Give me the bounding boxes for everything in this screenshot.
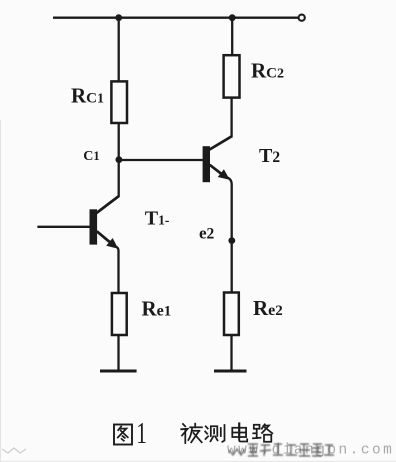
wire T1 base lead [37,226,89,228]
faint page edges [0,120,2,462]
wire Re2 to ground [230,335,232,372]
caption char 图 [114,425,132,445]
resistor Re2 [224,293,239,336]
T1 collector diagonal [97,196,119,213]
T2 emitter arrowhead [218,169,230,180]
svg-text:C1: C1 [83,149,99,164]
junction dot at top rail over RC1 [115,14,122,21]
wire Re1 to ground [117,335,119,372]
wire from top rail to RC1 [118,18,120,82]
T1 base bar [90,209,98,244]
wire top supply rail [53,17,298,19]
resistor Re1 [112,293,127,335]
svg-text:T2: T2 [259,145,280,167]
caption char 电 [232,424,247,442]
svg-text:1: 1 [136,416,147,450]
ground bar right [214,370,247,373]
caption char 路 [253,424,272,442]
caption char 被 [181,424,202,443]
T1 emitter diagonal [97,231,113,245]
wire RC2 to T2 collector [230,98,232,138]
bottom-left faint smudge [2,448,26,453]
caption: 图 1 被测电路 (drawn as vector strokes) [114,416,272,450]
node e2 junction dot [228,237,235,244]
resistor RC1 [111,81,127,123]
caption char 测 [205,425,224,442]
svg-text:e2: e2 [199,223,215,242]
terminal open circle (supply input) [299,15,305,21]
T2 emitter diagonal [210,165,225,177]
T2 collector diagonal [209,136,232,149]
transistor T1 [90,196,119,249]
wire from top rail to RC2 [231,18,233,56]
node C1 junction dot [116,156,123,163]
T2 base bar [203,146,210,182]
watermark dark overlay (blurred CJK smudge) [229,444,334,456]
T1 emitter arrowhead [106,238,118,249]
wire from RC1 to T1 collector (through node C1) [118,123,120,197]
wire from node C1 to T2 base [119,159,203,161]
resistor RC2 [224,55,240,97]
wire T2 emitter to Re2 (through node e2) [228,178,232,294]
wire T1 emitter to Re1 [117,247,119,294]
ground bar left [100,370,137,373]
transistor T2 [203,136,232,182]
junction dot at top rail over RC2 [229,14,236,21]
